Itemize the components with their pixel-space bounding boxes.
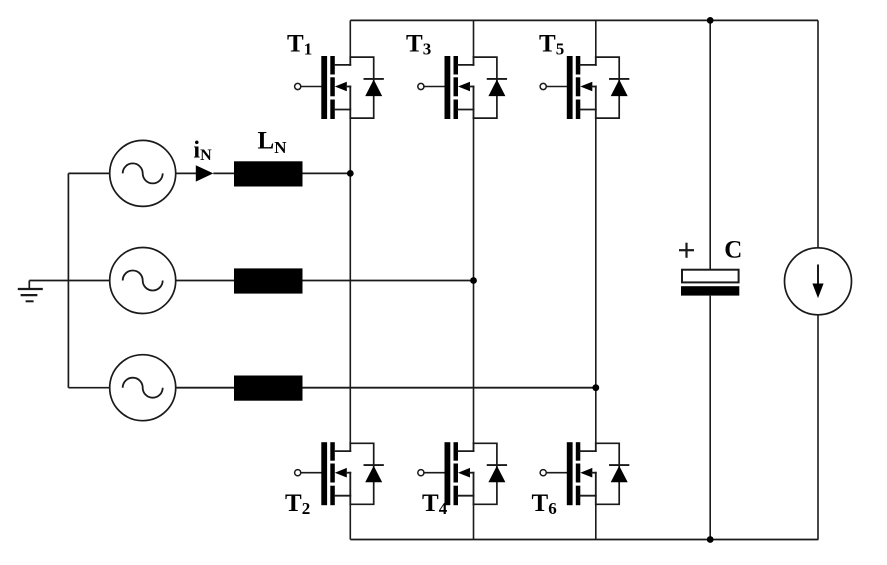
wire phase A arrow to LN bbox=[213, 172, 234, 174]
junction dot bottom rail / capacitor bbox=[707, 536, 714, 543]
wire column 3 lower (T6 source to bottom rail) bbox=[595, 504, 597, 539]
wire left neutral bus bbox=[67, 173, 69, 387]
wire phase B to node B bbox=[303, 280, 474, 282]
svg-text:T6: T6 bbox=[532, 490, 557, 518]
capacitor C top plate bbox=[682, 270, 739, 283]
wire phase C left (bus to Vc) bbox=[68, 387, 109, 389]
transistor T5 (NMOS with body diode) bbox=[540, 56, 628, 119]
current arrow iN bbox=[196, 165, 214, 181]
transistor T4 (NMOS with body diode) bbox=[418, 442, 506, 505]
wire column 1 lower (T2 source to bottom rail) bbox=[349, 504, 351, 539]
svg-text:C: C bbox=[724, 237, 742, 264]
wire bottom DC- rail bbox=[350, 539, 818, 541]
svg-text:T2: T2 bbox=[285, 490, 310, 518]
wire phase B from Vb to inductor bbox=[176, 280, 234, 282]
wire phase A from Va to arrow bbox=[176, 172, 197, 174]
inductor LN (phase A) bbox=[234, 161, 303, 186]
label + (capacitor polarity) bbox=[679, 243, 694, 258]
svg-text:LN: LN bbox=[258, 127, 288, 157]
wire load branch upper bbox=[817, 20, 819, 247]
svg-text:T1: T1 bbox=[287, 30, 312, 58]
svg-text:iN: iN bbox=[193, 138, 212, 164]
wire phase C to node C bbox=[303, 387, 596, 389]
wire phase A to node A bbox=[303, 172, 351, 174]
wire top DC+ rail bbox=[350, 19, 818, 21]
wire capacitor branch lower bbox=[709, 296, 711, 540]
transistor T2 (NMOS with body diode) bbox=[295, 442, 383, 505]
current source load bbox=[785, 248, 852, 315]
wire column 1 upper (top rail to T1 drain) bbox=[349, 20, 351, 57]
ac source Va (phase A) bbox=[110, 140, 176, 206]
wire column 2 lower (T4 source to bottom rail) bbox=[473, 504, 475, 539]
inductor phase C bbox=[234, 376, 303, 401]
ac source Vc (phase C) bbox=[110, 355, 176, 421]
junction dot top rail / capacitor bbox=[707, 17, 714, 24]
wire column 2 upper (top rail to T3 drain) bbox=[473, 20, 475, 57]
wire phase B left (ground tee to Vb) bbox=[29, 280, 109, 282]
svg-text:T3: T3 bbox=[406, 30, 431, 58]
node A junction dot bbox=[347, 170, 354, 177]
wire column 3 middle (T5 source to node C to T6 drain) bbox=[595, 118, 597, 443]
transistor T6 (NMOS with body diode) bbox=[540, 442, 628, 505]
wire capacitor branch upper bbox=[709, 20, 711, 269]
wire load branch lower bbox=[817, 315, 819, 540]
wire phase C from Vc to inductor bbox=[176, 387, 234, 389]
wire phase A left (bus to Va) bbox=[68, 172, 109, 174]
transistor T3 (NMOS with body diode) bbox=[418, 56, 506, 119]
inductor phase B bbox=[234, 268, 303, 293]
wire column 2 middle (T3 source to node B to T4 drain) bbox=[473, 118, 475, 443]
node B junction dot bbox=[470, 277, 477, 284]
wire column 1 middle (T1 source to node A to T2 drain) bbox=[349, 118, 351, 443]
svg-text:T5: T5 bbox=[539, 30, 564, 58]
node C junction dot bbox=[592, 384, 599, 391]
ac source Vb (phase B) bbox=[110, 248, 176, 314]
wire column 3 upper (top rail to T5 drain) bbox=[595, 20, 597, 57]
svg-text:T4: T4 bbox=[422, 490, 448, 518]
transistor T1 (NMOS with body diode) bbox=[295, 56, 383, 119]
capacitor C bottom plate bbox=[681, 286, 739, 295]
ground bbox=[18, 281, 43, 302]
